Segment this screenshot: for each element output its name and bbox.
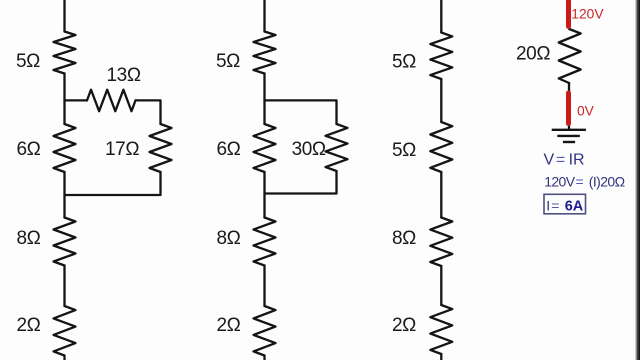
svg-text:2Ω: 2Ω <box>217 315 241 336</box>
svg-text:5Ω: 5Ω <box>392 140 416 161</box>
svg-text:30Ω: 30Ω <box>292 139 326 160</box>
svg-text:8Ω: 8Ω <box>392 228 416 249</box>
svg-text:V=IR: V=IR <box>544 152 585 169</box>
svg-text:17Ω: 17Ω <box>105 139 139 160</box>
svg-text:5Ω: 5Ω <box>16 51 40 72</box>
svg-text:0V: 0V <box>577 104 595 119</box>
svg-text:5Ω: 5Ω <box>392 52 416 73</box>
svg-text:2Ω: 2Ω <box>392 315 416 336</box>
svg-text:20Ω: 20Ω <box>516 44 550 65</box>
svg-text:8Ω: 8Ω <box>217 228 241 249</box>
svg-text:6Ω: 6Ω <box>217 139 241 160</box>
svg-text:8Ω: 8Ω <box>17 228 41 249</box>
svg-text:13Ω: 13Ω <box>107 65 141 86</box>
svg-text:120V: 120V <box>571 7 604 22</box>
svg-text:I=6A: I=6A <box>546 197 583 214</box>
svg-text:5Ω: 5Ω <box>216 51 240 72</box>
svg-text:6Ω: 6Ω <box>17 139 41 160</box>
svg-text:2Ω: 2Ω <box>17 315 41 336</box>
